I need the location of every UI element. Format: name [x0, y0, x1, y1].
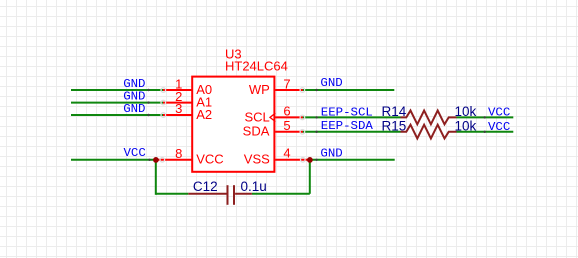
svg-text:R14: R14 [382, 104, 407, 119]
svg-text:0.1u: 0.1u [241, 179, 267, 194]
svg-text:VCC: VCC [123, 146, 145, 160]
svg-text:5: 5 [283, 118, 290, 133]
svg-text:4: 4 [283, 146, 290, 161]
svg-text:HT24LC64: HT24LC64 [225, 59, 288, 74]
svg-text:WP: WP [249, 82, 270, 97]
svg-text:VCC: VCC [196, 152, 223, 167]
svg-text:VSS: VSS [244, 151, 270, 166]
svg-text:VCC: VCC [488, 120, 510, 134]
svg-text:SCL: SCL [245, 110, 270, 125]
svg-text:8: 8 [175, 146, 182, 161]
svg-text:R15: R15 [382, 118, 407, 133]
svg-text:C12: C12 [193, 179, 218, 194]
svg-text:3: 3 [175, 101, 182, 116]
svg-text:A2: A2 [196, 107, 212, 122]
svg-text:EEP-SCL: EEP-SCL [321, 105, 373, 119]
svg-text:GND: GND [320, 76, 342, 90]
svg-text:7: 7 [283, 76, 290, 91]
svg-text:6: 6 [283, 104, 290, 119]
svg-text:GND: GND [320, 146, 342, 160]
svg-text:10k: 10k [455, 118, 477, 133]
svg-text:10k: 10k [455, 104, 477, 119]
svg-text:VCC: VCC [488, 105, 510, 119]
svg-text:EEP-SDA: EEP-SDA [321, 119, 374, 133]
svg-text:SDA: SDA [243, 124, 270, 139]
svg-text:GND: GND [123, 102, 145, 116]
